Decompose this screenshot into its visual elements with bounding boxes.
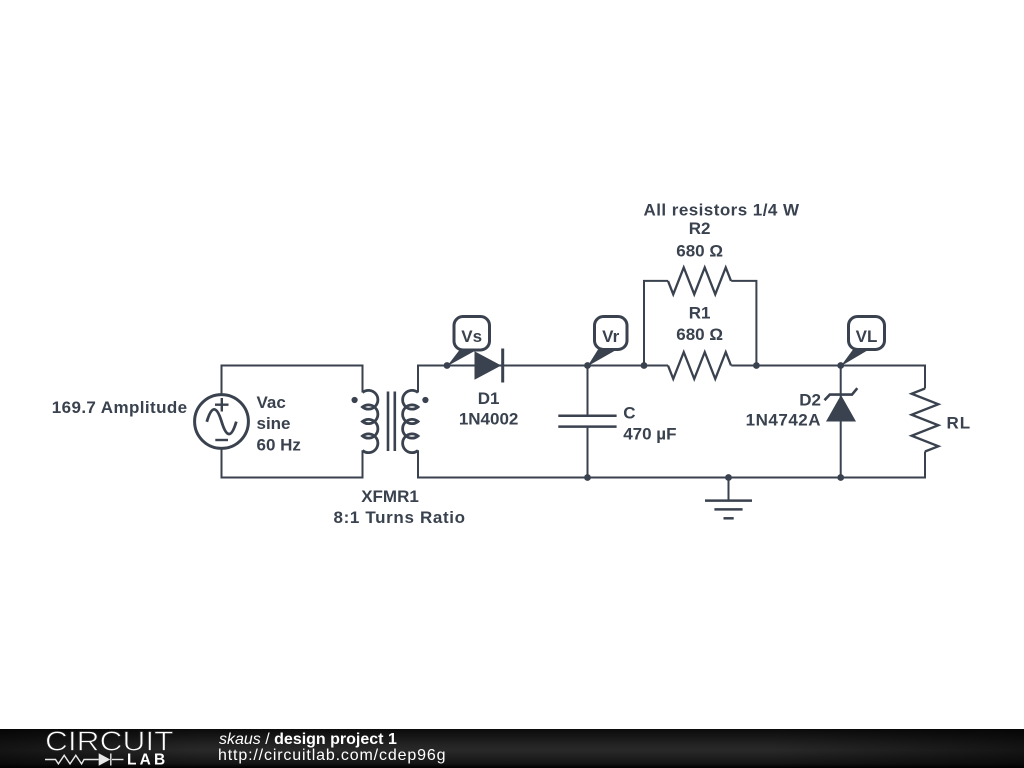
wire RL bottom and bottom rail bbox=[418, 450, 925, 477]
footer url bbox=[218, 747, 446, 764]
XFMR1 label bbox=[333, 487, 465, 527]
svg-text:D2: D2 bbox=[799, 391, 821, 410]
svg-text:680 Ω: 680 Ω bbox=[676, 242, 723, 261]
junction R2 left bbox=[641, 362, 648, 369]
svg-text:Vs: Vs bbox=[461, 327, 482, 346]
junction D2 bottom bbox=[837, 474, 844, 481]
svg-text:1N4002: 1N4002 bbox=[459, 410, 519, 429]
diode D1 bbox=[475, 349, 503, 383]
junction VL node bbox=[837, 362, 844, 369]
resistor RL bbox=[912, 389, 939, 452]
svg-text:LAB: LAB bbox=[127, 752, 168, 768]
node label Vr bbox=[588, 317, 628, 367]
svg-text:8:1 Turns Ratio: 8:1 Turns Ratio bbox=[333, 508, 465, 527]
junction cap bottom bbox=[584, 474, 591, 481]
voltage source V1 bbox=[195, 395, 249, 449]
CircuitLab logo bbox=[0, 729, 210, 768]
footer bar bbox=[0, 729, 1024, 768]
wire zener D2 vertical bbox=[840, 366, 842, 478]
wire R2 branch left leg bbox=[644, 281, 668, 366]
logo resistor-diode squiggle bbox=[45, 754, 124, 766]
node label Vs bbox=[447, 317, 490, 367]
svg-text:R2: R2 bbox=[689, 219, 711, 238]
resistor R2 bbox=[668, 268, 731, 295]
wire R1 right to RL top bbox=[731, 366, 925, 389]
svg-text:R1: R1 bbox=[689, 304, 711, 323]
R1 label bbox=[676, 304, 723, 345]
node label VL bbox=[841, 317, 885, 367]
V1 value label right bbox=[257, 393, 301, 455]
transformer XFMR1 bbox=[352, 390, 429, 452]
svg-text:169.7 Amplitude: 169.7 Amplitude bbox=[52, 398, 188, 417]
resistor R1 bbox=[668, 352, 731, 379]
wire R2 branch right leg bbox=[731, 281, 756, 366]
D2 label bbox=[746, 391, 821, 430]
junction Vr node bbox=[584, 362, 591, 369]
zener diode D2 bbox=[825, 388, 858, 421]
junction ground node bbox=[725, 474, 732, 481]
svg-text:VL: VL bbox=[856, 327, 878, 346]
svg-text:470 µF: 470 µF bbox=[623, 424, 676, 443]
wire ground stem bbox=[728, 478, 730, 501]
svg-text:60 Hz: 60 Hz bbox=[257, 436, 301, 455]
svg-text:XFMR1: XFMR1 bbox=[361, 487, 419, 506]
C label bbox=[623, 404, 676, 444]
wire capacitor bottom lead bbox=[587, 428, 589, 478]
junction Vs node bbox=[444, 362, 451, 369]
ground bbox=[705, 501, 752, 519]
wire bottom-left loop bbox=[222, 448, 363, 477]
wire secondary top rail to R1 bbox=[418, 366, 668, 393]
capacitor C bbox=[558, 416, 616, 427]
svg-text:All resistors 1/4 W: All resistors 1/4 W bbox=[644, 200, 800, 219]
svg-text:RL: RL bbox=[947, 413, 972, 432]
svg-text:Vac: Vac bbox=[257, 393, 286, 412]
footer title bbox=[219, 731, 397, 748]
wire capacitor top lead bbox=[587, 366, 589, 415]
junction R2 right bbox=[753, 362, 760, 369]
svg-text:D1: D1 bbox=[478, 389, 500, 408]
D1 label bbox=[459, 389, 519, 429]
R2 label bbox=[676, 219, 723, 260]
svg-text:1N4742A: 1N4742A bbox=[746, 410, 821, 429]
svg-text:sine: sine bbox=[257, 414, 291, 433]
svg-text:680 Ω: 680 Ω bbox=[676, 325, 723, 344]
svg-text:Vr: Vr bbox=[602, 327, 619, 346]
wire top-left loop bbox=[222, 366, 363, 395]
svg-text:C: C bbox=[623, 404, 635, 423]
